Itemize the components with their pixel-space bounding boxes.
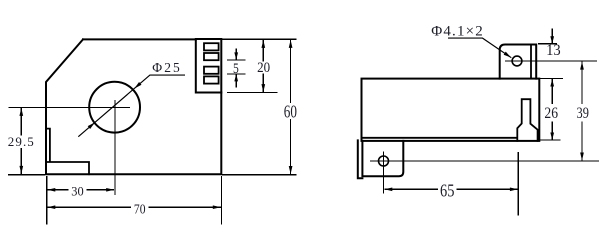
bottom hole d4.1 xyxy=(379,156,389,166)
dim 13 shaft xyxy=(551,29,553,44)
dim 13 extension xyxy=(538,43,557,45)
dim 30 arrow right xyxy=(106,188,114,192)
dim 39 arrow bottom xyxy=(580,153,584,161)
dim 5 arrow top xyxy=(234,52,238,60)
dim 20 line xyxy=(262,40,264,92)
inner bottom step line xyxy=(362,137,517,139)
terminal pin 2 xyxy=(204,53,219,60)
top hole centerline xyxy=(505,60,597,62)
top mounting ear xyxy=(500,45,537,79)
dim 65 right extension xyxy=(517,152,519,216)
dim 5 shaft bottom xyxy=(235,74,237,88)
dim 39 arrow top xyxy=(580,62,584,70)
bottom bracket plate xyxy=(358,140,363,178)
dim 70 line xyxy=(47,206,221,208)
dim 70 arrow left xyxy=(47,205,55,209)
dim 29.5 arrow top xyxy=(19,108,23,116)
block bottom extension xyxy=(227,92,278,94)
svg-text:65: 65 xyxy=(440,181,454,201)
circle vertical centerline xyxy=(114,100,116,195)
top ear inner line xyxy=(530,45,532,79)
dim 20 arrow top xyxy=(261,40,265,48)
dim 5 shaft top xyxy=(235,49,237,60)
right view body outline xyxy=(362,79,540,141)
terminal pin 4 xyxy=(204,76,219,83)
dim 70 arrow right xyxy=(213,205,221,209)
dim 26 line xyxy=(551,79,553,140)
dim 29.5 line xyxy=(20,108,22,174)
dim 26 arrow bottom xyxy=(550,133,554,141)
dim 5 extension top xyxy=(227,59,246,61)
bottom hole horizontal centerline xyxy=(370,160,599,162)
svg-text:29.5: 29.5 xyxy=(8,134,34,149)
top extension right xyxy=(222,38,297,40)
dim 30 arrow left xyxy=(47,188,55,192)
terminal pin 1 xyxy=(204,43,219,50)
dim 26 top extension xyxy=(537,77,563,79)
dim 39 line xyxy=(581,62,583,161)
bottom extension right xyxy=(222,174,296,176)
dim 60 arrow top xyxy=(289,40,293,48)
dim 65 arrow right xyxy=(510,187,518,191)
bottom extension left xyxy=(8,174,45,176)
leader arrow lower-left xyxy=(88,122,95,129)
terminal pin 3 xyxy=(204,67,219,74)
bottom hole vertical centerline xyxy=(383,151,385,193)
terminal block outline xyxy=(196,39,222,93)
dim 20 arrow bottom xyxy=(261,84,265,92)
svg-text:13: 13 xyxy=(546,42,561,59)
dim 29.5 arrow bottom xyxy=(19,166,23,174)
diameter leader line xyxy=(78,75,185,137)
left view body outline xyxy=(46,39,221,174)
bottom mounting ear xyxy=(362,141,403,176)
svg-text:20: 20 xyxy=(257,60,270,76)
dim 65 line xyxy=(384,188,518,190)
svg-text:26: 26 xyxy=(544,105,558,122)
svg-text:Φ25: Φ25 xyxy=(152,60,180,75)
latch profile xyxy=(517,99,537,141)
svg-text:5: 5 xyxy=(233,61,239,77)
svg-text:Φ4.1×2: Φ4.1×2 xyxy=(431,24,483,40)
extension right vertical xyxy=(221,176,223,224)
dim 5 arrow bottom xyxy=(234,74,238,82)
hole circle d25 xyxy=(89,82,140,133)
label leader line xyxy=(448,38,511,58)
label leader arrow xyxy=(504,52,512,58)
top hole d4.1 xyxy=(512,56,522,66)
svg-text:60: 60 xyxy=(284,101,297,121)
svg-text:70: 70 xyxy=(134,202,146,217)
bottom-left step xyxy=(46,129,89,175)
leader arrow upper-right xyxy=(134,82,141,89)
dim 13 arrow xyxy=(550,36,554,44)
extension left vertical xyxy=(46,176,48,224)
dim 65 arrow left xyxy=(384,187,392,191)
dim 26 arrow top xyxy=(550,79,554,87)
dim 30 line xyxy=(47,189,114,191)
svg-text:39: 39 xyxy=(577,105,589,122)
dim 60 line xyxy=(290,40,292,174)
circle horizontal centerline xyxy=(9,106,130,108)
svg-text:30: 30 xyxy=(71,184,83,199)
dim 60 arrow bottom xyxy=(289,166,293,174)
dim 26 bottom extension xyxy=(537,139,561,141)
dim 5 extension bottom xyxy=(227,73,246,75)
